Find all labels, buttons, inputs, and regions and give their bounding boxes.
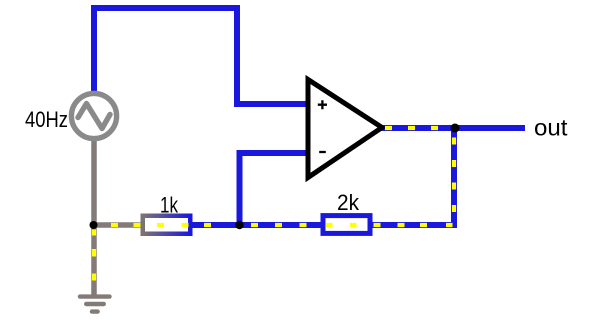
node junction at ground rail: [90, 221, 98, 229]
current dots output wire: [385, 126, 438, 130]
wire noninverting net: source top to op-amp + input: [94, 8, 306, 104]
wire op-amp output to out label: [380, 125, 525, 131]
svg-text:1k: 1k: [160, 193, 179, 218]
node junction at inverting input: [235, 221, 243, 229]
ground: [80, 297, 110, 312]
node junction at output: [451, 124, 460, 133]
resistor R2 2k: [323, 216, 370, 234]
resistor R1 1k: [143, 216, 191, 234]
op-amp + pin marker: [318, 100, 327, 109]
wire feedback vertical right side: [451, 128, 457, 228]
AC voltage source V1: [71, 93, 116, 138]
op-amp U1: [308, 80, 382, 178]
wire ground junction down to ground symbol (gray): [91, 225, 97, 295]
current dots ground wire: [92, 230, 96, 281]
current dots bottom rail: [111, 223, 453, 227]
wire ground junction to R1 left (gray): [94, 222, 141, 228]
wire source bottom to ground junction (gray): [91, 140, 97, 225]
current dots feedback vertical: [452, 138, 456, 213]
svg-text:40Hz: 40Hz: [25, 107, 68, 132]
svg-text:out: out: [534, 115, 568, 141]
svg-text:2k: 2k: [337, 190, 360, 215]
wire inverting net: junction up to op-amp - input: [240, 153, 307, 224]
op-amp - pin marker: [319, 151, 326, 153]
wire bottom rail R1 to R2 to right corner (blue): [192, 222, 454, 228]
